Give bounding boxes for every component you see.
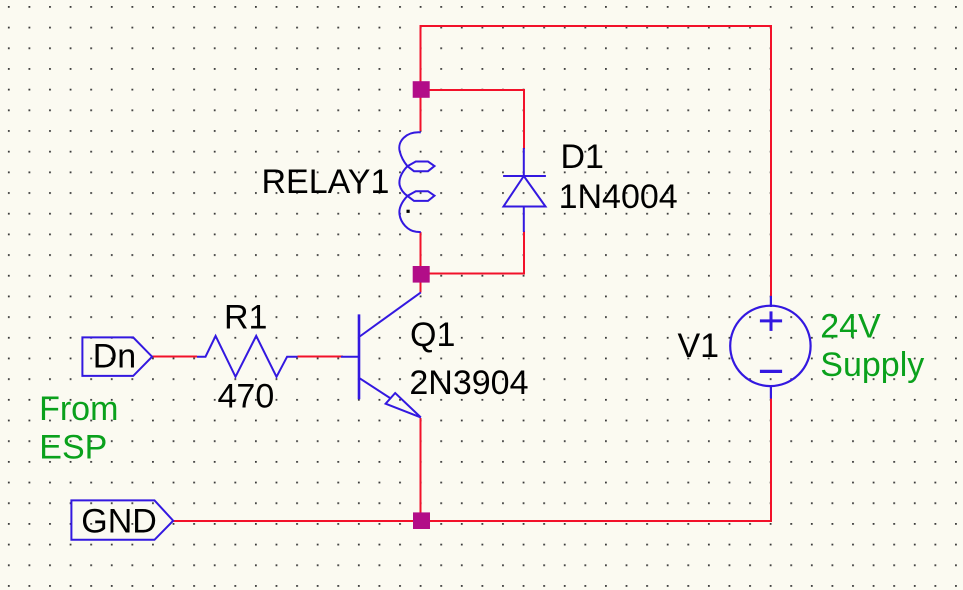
junction node at relay top bbox=[413, 81, 430, 98]
wire diode top branch bbox=[421, 90, 524, 149]
port flag Dn bbox=[82, 337, 152, 376]
wire transistor emitter down to ground rail bbox=[420, 418, 422, 521]
svg-text:ESP: ESP bbox=[39, 429, 107, 467]
resistor R1 bbox=[197, 336, 298, 377]
svg-text:24V: 24V bbox=[820, 308, 881, 346]
wire ground rail to V1 bottom bbox=[173, 399, 771, 521]
svg-text:GND: GND bbox=[81, 503, 157, 541]
svg-text:Dn: Dn bbox=[93, 338, 136, 376]
inductor phase dot bbox=[407, 210, 410, 213]
svg-text:1N4004: 1N4004 bbox=[559, 178, 678, 216]
inductor RELAY1 coil bbox=[399, 132, 434, 232]
transistor Q1 bbox=[341, 292, 421, 417]
svg-text:470: 470 bbox=[218, 378, 275, 416]
port flag GND bbox=[71, 500, 173, 539]
junction node at ground rail bbox=[413, 512, 430, 529]
svg-text:D1: D1 bbox=[561, 138, 604, 176]
svg-text:2N3904: 2N3904 bbox=[409, 364, 528, 402]
wire resistor to transistor base bbox=[298, 356, 344, 358]
svg-text:RELAY1: RELAY1 bbox=[262, 163, 390, 201]
diode D1 bbox=[503, 148, 546, 232]
wire Dn port to resistor bbox=[153, 356, 198, 358]
wire top rail from relay top to V1 top bbox=[421, 26, 771, 296]
svg-text:Supply: Supply bbox=[820, 346, 924, 384]
wire relay bottom to transistor collector bbox=[420, 232, 422, 293]
wire diode bottom branch bbox=[421, 231, 524, 274]
svg-text:V1: V1 bbox=[678, 327, 720, 365]
svg-text:Q1: Q1 bbox=[410, 316, 455, 354]
voltage source V1 bbox=[730, 296, 810, 399]
junction node at relay bottom bbox=[413, 266, 430, 283]
svg-text:From: From bbox=[39, 390, 118, 428]
svg-text:R1: R1 bbox=[224, 299, 267, 337]
